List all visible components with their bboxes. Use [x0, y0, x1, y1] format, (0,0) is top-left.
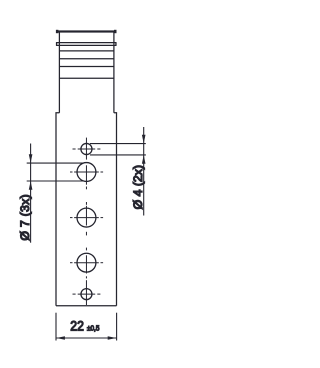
svg-text:Ø 7 (3x): Ø 7 (3x) — [18, 194, 32, 240]
svg-text:Ø 4 (2x): Ø 4 (2x) — [131, 165, 145, 209]
step left — [56, 113, 59, 306]
rib line 3 — [59, 66, 114, 68]
dimension 22 ±0,5 bottom — [56, 313, 117, 341]
neck left side — [58, 32, 60, 112]
body bottom edge — [56, 305, 117, 307]
svg-text:22: 22 — [70, 317, 84, 333]
step right — [114, 113, 117, 306]
top plate — [56, 30, 117, 33]
rib line 2 — [59, 58, 114, 60]
hole H4 (Ø7) — [70, 253, 103, 278]
neck right side — [113, 32, 115, 112]
hole H2 (Ø7) — [70, 163, 103, 205]
dimension Ø4 (2x) right — [90, 127, 146, 216]
hole H3 (Ø7) — [70, 206, 103, 251]
flange ring (double line) — [56, 42, 116, 46]
svg-text:±0,5: ±0,5 — [87, 324, 99, 332]
hole H1 (Ø4) — [73, 138, 101, 160]
dimension Ø7 (3x) left — [27, 144, 84, 243]
rib line 4 — [59, 77, 114, 79]
hole H5 (Ø4) — [73, 280, 101, 305]
rib line 1 — [59, 50, 114, 52]
